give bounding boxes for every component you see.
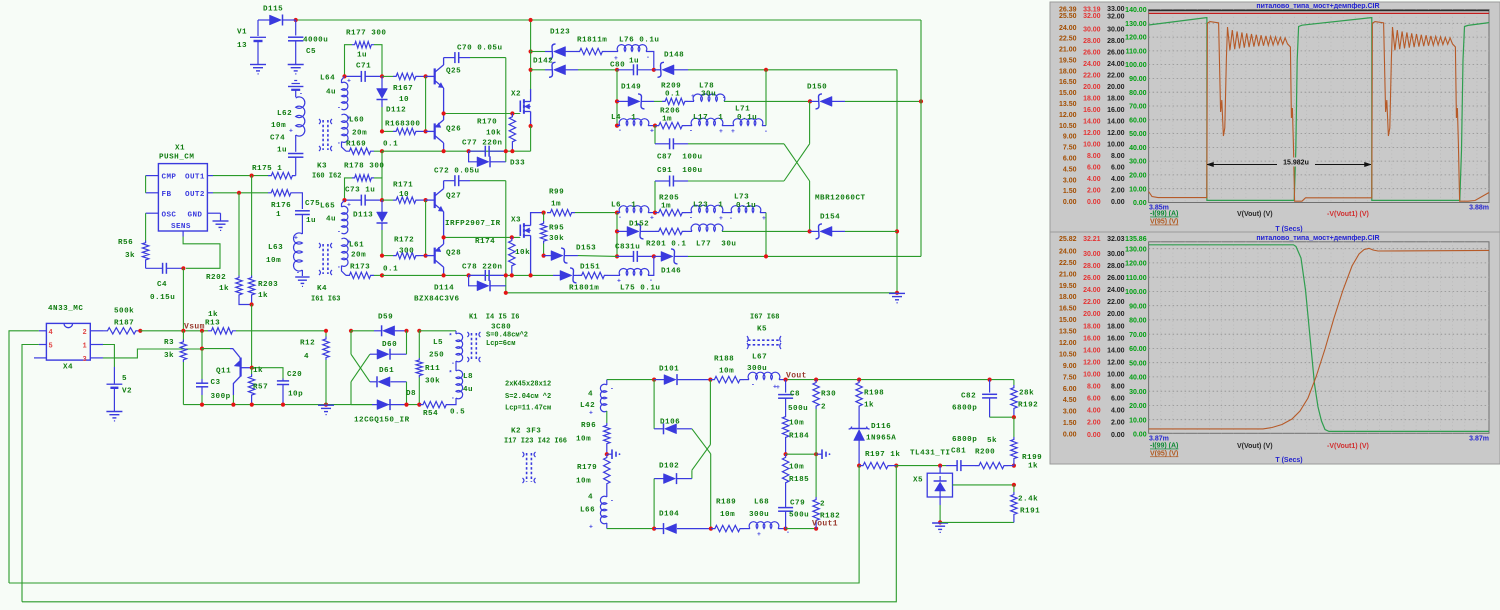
svg-text:2.00: 2.00 — [1087, 188, 1101, 195]
wire gate line upper — [444, 113, 521, 115]
node R202/R203 — [250, 302, 254, 306]
svg-text:100.00: 100.00 — [1125, 289, 1147, 296]
node X2 D142 — [529, 68, 533, 72]
svg-text:18.00: 18.00 — [1107, 96, 1125, 103]
node Q28 collector — [442, 273, 446, 277]
svg-text:26.00: 26.00 — [1083, 275, 1101, 282]
wire CMP-FB loop — [146, 175, 159, 177]
svg-text:13: 13 — [237, 42, 247, 50]
transformer core K2 — [526, 453, 528, 482]
svg-text:18.00: 18.00 — [1107, 323, 1125, 330]
resistor R200 — [972, 465, 975, 467]
svg-text:R171: R171 — [393, 182, 413, 190]
svg-text:110.00: 110.00 — [1126, 275, 1147, 282]
resistor R174 — [509, 237, 515, 269]
node C3 bus — [200, 403, 204, 407]
svg-text:L71: L71 — [735, 106, 750, 114]
svg-text:D123: D123 — [550, 29, 570, 37]
svg-text:30.00: 30.00 — [1083, 27, 1101, 34]
resistor R99 — [547, 209, 575, 215]
capacitor C78 — [469, 274, 486, 276]
node R182 bottom — [814, 527, 818, 531]
wire gate line lower — [444, 236, 521, 238]
capacitor C70 — [444, 57, 455, 59]
svg-text:L64: L64 — [320, 75, 335, 83]
capacitor C81 — [946, 465, 957, 467]
svg-text:10m: 10m — [576, 478, 591, 486]
node Q11 base feed — [200, 347, 204, 351]
svg-text:OSC: OSC — [162, 211, 177, 219]
inductor L4 — [617, 125, 620, 127]
svg-text:Vout: Vout — [786, 372, 807, 381]
svg-text:D33: D33 — [510, 160, 525, 168]
svg-text:R30: R30 — [821, 391, 836, 399]
node C71 left — [342, 74, 346, 78]
wire x766 upper — [765, 70, 767, 126]
svg-text:15.00: 15.00 — [1059, 317, 1077, 324]
panel1 green trace — [1149, 18, 1489, 201]
svg-text:R1811m: R1811m — [577, 37, 607, 45]
svg-text:D113: D113 — [353, 212, 373, 220]
svg-text:16.50: 16.50 — [1059, 79, 1077, 86]
svg-text:L23 1: L23 1 — [693, 202, 723, 210]
svg-text:-: - — [618, 214, 622, 221]
node R96/R179 — [605, 452, 609, 456]
node R171 right — [424, 198, 428, 202]
svg-text:4.00: 4.00 — [1087, 408, 1101, 415]
transformer core K4 — [322, 244, 324, 274]
svg-text:R200: R200 — [975, 449, 995, 457]
svg-text:L78: L78 — [699, 83, 714, 91]
svg-text:10p: 10p — [288, 391, 303, 399]
svg-text:10.50: 10.50 — [1059, 352, 1077, 359]
svg-text:2: 2 — [820, 501, 825, 509]
wire feedback B — [22, 466, 896, 602]
inductor L67 — [744, 379, 749, 381]
svg-text:+: + — [731, 128, 735, 135]
svg-text:-: - — [751, 382, 755, 389]
inductor L65 — [342, 200, 345, 207]
node Vsum/R12 — [324, 329, 328, 333]
svg-text:1N965A: 1N965A — [866, 435, 896, 443]
svg-text:+: + — [289, 128, 293, 135]
zener D148 — [654, 69, 661, 71]
transformer core K1 — [471, 333, 473, 361]
diode D112 — [381, 76, 383, 88]
svg-text:8.00: 8.00 — [1087, 153, 1101, 160]
svg-text:D104: D104 — [659, 511, 679, 519]
zener D153 — [544, 255, 551, 257]
svg-text:4000u: 4000u — [303, 37, 328, 45]
svg-text:2.4k: 2.4k — [1018, 496, 1038, 504]
svg-text:+: + — [617, 278, 621, 285]
inductor L6 — [617, 212, 620, 214]
svg-text:0.00: 0.00 — [1087, 199, 1101, 206]
svg-text:10m: 10m — [789, 420, 804, 428]
svg-text:30.00: 30.00 — [1107, 27, 1125, 34]
svg-text:Q28: Q28 — [446, 250, 461, 258]
svg-text:4.00: 4.00 — [1087, 176, 1101, 183]
resistor R180 — [578, 272, 608, 278]
ground X1 GND pin — [207, 212, 220, 214]
node ground right — [895, 291, 899, 295]
svg-text:D61: D61 — [379, 367, 394, 375]
svg-text:4u: 4u — [326, 89, 336, 97]
svg-text:D153: D153 — [576, 245, 596, 253]
svg-text:4u: 4u — [463, 386, 473, 394]
svg-text:9.00: 9.00 — [1063, 134, 1077, 141]
capacitor C8 — [785, 380, 787, 393]
svg-text:20m: 20m — [352, 130, 367, 138]
inductor L61 — [342, 238, 349, 266]
svg-text:32.00: 32.00 — [1107, 13, 1125, 20]
svg-text:R178 300: R178 300 — [344, 163, 384, 171]
svg-text:D150: D150 — [807, 84, 827, 92]
svg-text:28.00: 28.00 — [1107, 38, 1125, 45]
svg-text:15.00: 15.00 — [1059, 90, 1077, 97]
wire C72 right drop — [505, 181, 507, 293]
svg-text:4.00: 4.00 — [1111, 176, 1125, 183]
ground V2 — [106, 411, 122, 413]
svg-text:0.00: 0.00 — [1133, 200, 1147, 207]
node X3 drain/R99 — [542, 211, 546, 215]
svg-text:L75 0.1u: L75 0.1u — [620, 285, 660, 293]
svg-text:20.00: 20.00 — [1129, 173, 1147, 180]
resistor R209 — [662, 98, 688, 104]
svg-text:21.00: 21.00 — [1059, 271, 1077, 278]
svg-text:4.50: 4.50 — [1063, 397, 1077, 404]
svg-text:90.00: 90.00 — [1129, 303, 1147, 310]
svg-text:+: + — [650, 128, 654, 135]
svg-text:D59: D59 — [378, 314, 393, 322]
wire pin1 to V2 — [90, 344, 103, 346]
svg-text:20.00: 20.00 — [1129, 403, 1147, 410]
wire bridge bottom line — [607, 528, 656, 530]
resistor R54 — [419, 401, 450, 407]
svg-text:K3: K3 — [317, 163, 327, 171]
node Vsum/R13 — [200, 329, 204, 333]
svg-text:12.00: 12.00 — [1059, 340, 1077, 347]
svg-text:300u: 300u — [747, 365, 767, 373]
wire right top corner — [896, 70, 898, 293]
svg-text:-: - — [764, 128, 768, 135]
svg-text:4.00: 4.00 — [1111, 408, 1125, 415]
diode D113 — [381, 200, 383, 212]
svg-text:500k: 500k — [114, 308, 134, 316]
transistor Q28 — [426, 255, 435, 257]
svg-text:19.50: 19.50 — [1059, 283, 1077, 290]
svg-text:10.00: 10.00 — [1107, 372, 1125, 379]
svg-text:22.00: 22.00 — [1083, 73, 1101, 80]
svg-text:C87 100u: C87 100u — [657, 154, 703, 162]
capacitor C75 — [295, 210, 310, 212]
wire cross to lower — [784, 144, 810, 181]
svg-text:1: 1 — [83, 343, 87, 351]
svg-text:R177 300: R177 300 — [346, 30, 386, 38]
svg-text:D112: D112 — [386, 107, 406, 115]
capacitor C20 — [282, 379, 284, 381]
svg-text:0.00: 0.00 — [1063, 432, 1077, 439]
diode D102 — [654, 478, 663, 480]
svg-text:10.50: 10.50 — [1059, 123, 1077, 130]
svg-text:1k: 1k — [258, 292, 268, 300]
svg-text:14.00: 14.00 — [1083, 119, 1101, 126]
node X3 source — [529, 273, 533, 277]
svg-text:C831u: C831u — [615, 244, 640, 252]
svg-text:Q11: Q11 — [216, 368, 231, 376]
svg-text:10m: 10m — [720, 511, 735, 519]
svg-text:D102: D102 — [659, 463, 679, 471]
wire feedback A — [9, 466, 859, 583]
zener D149 — [617, 100, 628, 102]
node C71 right — [380, 74, 384, 78]
svg-text:0.00: 0.00 — [1063, 199, 1077, 206]
svg-text:+: + — [691, 93, 695, 100]
svg-text:0.00: 0.00 — [1111, 432, 1125, 439]
svg-text:110.00: 110.00 — [1126, 49, 1147, 56]
svg-text:V1: V1 — [237, 29, 247, 37]
node C73 right — [380, 198, 384, 202]
node C83 right — [652, 254, 656, 258]
svg-text:L76 0.1u: L76 0.1u — [619, 37, 659, 45]
node R174 bottom — [510, 273, 514, 277]
svg-text:24.00: 24.00 — [1083, 287, 1101, 294]
svg-text:-: - — [649, 277, 653, 284]
svg-text:L65: L65 — [320, 203, 335, 211]
svg-text:D142: D142 — [533, 58, 553, 66]
svg-text:C73 1u: C73 1u — [345, 187, 375, 195]
node OUT1/R203 — [250, 174, 254, 178]
inductor L68 — [744, 528, 750, 530]
node D154 left — [808, 229, 812, 233]
wire diag cross upper — [350, 331, 352, 354]
node L4 line left — [615, 124, 619, 128]
svg-text:10.00: 10.00 — [1107, 142, 1125, 149]
resistor R172 — [382, 255, 393, 257]
inductor L42 — [606, 380, 608, 385]
svg-text:T (Secs): T (Secs) — [1275, 457, 1302, 464]
svg-text:18.00: 18.00 — [1083, 323, 1101, 330]
svg-text:R3: R3 — [164, 339, 174, 347]
svg-text:12.00: 12.00 — [1059, 112, 1077, 119]
resistor R95 — [543, 213, 545, 221]
wire K3 loop to K4 loop — [381, 151, 383, 178]
capacitor C71 — [345, 75, 362, 77]
svg-text:R175 1: R175 1 — [252, 165, 282, 173]
svg-text:12.00: 12.00 — [1083, 360, 1101, 367]
ic marker 2 — [817, 453, 822, 455]
svg-text:500u: 500u — [789, 512, 809, 520]
svg-text:6800p: 6800p — [952, 436, 977, 444]
svg-text:BZX84C3V6: BZX84C3V6 — [414, 296, 460, 304]
wire mid tap — [786, 453, 817, 455]
svg-text:30.00: 30.00 — [1129, 389, 1147, 396]
svg-text:30k: 30k — [425, 378, 440, 386]
node C73 left — [342, 198, 346, 202]
resistor R167 — [382, 75, 393, 77]
resistor R203 — [248, 276, 254, 298]
node mid tap right — [814, 452, 818, 456]
resistor R206 — [655, 122, 686, 128]
svg-text:I67 I68: I67 I68 — [750, 314, 779, 322]
inductor L63 — [294, 233, 303, 271]
diode D33 — [469, 151, 477, 162]
svg-text:D148: D148 — [664, 52, 684, 60]
node Q25 emitter — [442, 111, 446, 115]
svg-text:1k: 1k — [219, 285, 229, 293]
svg-text:C82: C82 — [961, 393, 976, 401]
wire X5 ref — [953, 484, 1014, 486]
svg-text:V(95) (V): V(95) (V) — [1150, 219, 1178, 226]
wire diag cross lower — [351, 354, 370, 382]
svg-text:70.00: 70.00 — [1129, 104, 1147, 111]
svg-text:10m: 10m — [271, 122, 286, 130]
svg-text:3k: 3k — [125, 252, 135, 260]
svg-text:R202: R202 — [206, 274, 226, 282]
svg-text:135.86: 135.86 — [1125, 236, 1147, 243]
wire bridge left upper — [653, 380, 655, 429]
svg-text:30.00: 30.00 — [1107, 251, 1125, 258]
resistor R197 — [859, 462, 892, 468]
svg-text:0.15u: 0.15u — [150, 294, 175, 302]
svg-text:TL431_TI: TL431_TI — [910, 450, 950, 458]
svg-text:Q25: Q25 — [446, 68, 461, 76]
svg-text:C4: C4 — [157, 281, 167, 289]
resistor R185 — [782, 454, 788, 486]
svg-text:R192: R192 — [1018, 402, 1038, 410]
stub pin left 3 — [34, 357, 46, 359]
svg-text:C75: C75 — [305, 200, 320, 208]
svg-text:-: - — [451, 360, 455, 367]
svg-text:D149: D149 — [621, 84, 641, 92]
svg-text:D116: D116 — [871, 423, 891, 431]
svg-text:26.00: 26.00 — [1107, 275, 1125, 282]
transistor Q11 — [202, 348, 230, 350]
svg-text:D151: D151 — [580, 264, 600, 272]
inductor L73 — [722, 212, 732, 214]
svg-text:C78 220n: C78 220n — [462, 264, 502, 272]
capacitor C80 — [617, 69, 634, 71]
svg-text:25.82: 25.82 — [1059, 236, 1077, 243]
resistor R30 — [813, 380, 819, 409]
svg-text:16.00: 16.00 — [1083, 107, 1101, 114]
svg-text:80.00: 80.00 — [1129, 90, 1147, 97]
node bridge bottom right — [709, 527, 713, 531]
resistor R198 — [856, 380, 862, 409]
svg-text:': ' — [451, 397, 455, 404]
svg-text:L4 1: L4 1 — [611, 114, 636, 122]
svg-text:R168300: R168300 — [385, 121, 420, 129]
MOSFET X3 — [519, 225, 521, 237]
svg-text:15.982u: 15.982u — [1283, 159, 1309, 166]
svg-text:9.00: 9.00 — [1063, 363, 1077, 370]
svg-text:8.00: 8.00 — [1087, 384, 1101, 391]
svg-text:-: - — [610, 498, 614, 505]
panel1 red trace -V(Vout1) — [1149, 12, 1489, 14]
svg-text:3k: 3k — [164, 352, 174, 360]
resistor R11 — [418, 331, 420, 358]
svg-text:K1 I4 I5 I6: K1 I4 I5 I6 — [469, 314, 519, 322]
zener D154 — [810, 230, 819, 232]
svg-text:S=2.04см ^2: S=2.04см ^2 — [505, 392, 551, 401]
node Vout — [784, 378, 788, 382]
node D154 right — [895, 229, 899, 233]
svg-text:1k: 1k — [1028, 463, 1038, 471]
wire bridge right upper — [709, 380, 711, 445]
wire X2 column top — [530, 20, 532, 70]
wire R203 node down — [251, 305, 253, 368]
wire Vsum to C3 — [201, 331, 203, 349]
wire pin5 feedback — [39, 344, 47, 346]
svg-text:X4: X4 — [63, 364, 73, 372]
panel1 black trace V(Vout) — [1149, 10, 1489, 12]
svg-text:7.50: 7.50 — [1063, 374, 1077, 381]
svg-text:1: 1 — [276, 211, 281, 219]
svg-text:R209: R209 — [661, 83, 681, 91]
svg-text:+: + — [347, 239, 351, 246]
svg-text:33.00: 33.00 — [1107, 6, 1125, 13]
svg-text:2.00: 2.00 — [1087, 420, 1101, 427]
svg-text:+: + — [294, 235, 298, 242]
svg-text:60.00: 60.00 — [1129, 117, 1147, 124]
svg-text:R174: R174 — [475, 238, 495, 246]
svg-text:L67: L67 — [752, 354, 767, 362]
svg-text:+: + — [762, 215, 766, 222]
svg-text:K4: K4 — [317, 285, 327, 293]
node C79 bottom — [784, 527, 788, 531]
svg-text:16.00: 16.00 — [1107, 107, 1125, 114]
optocoupler X4 4N33_MC box — [46, 323, 90, 360]
diode D59 — [351, 330, 374, 332]
svg-text:5: 5 — [49, 343, 53, 351]
panel2 green trace — [1149, 245, 1489, 432]
node X2 top D123 — [529, 49, 533, 53]
zener D123 — [531, 51, 545, 53]
transistor Q26 — [426, 130, 435, 132]
node Q11 bus — [231, 403, 235, 407]
node R11 bus — [417, 403, 421, 407]
svg-text:X5: X5 — [913, 477, 923, 485]
svg-text:OUT1: OUT1 — [185, 174, 205, 182]
svg-text:R199: R199 — [1022, 454, 1042, 462]
svg-text:0.00: 0.00 — [1087, 432, 1101, 439]
panel1 orange trace — [1149, 22, 1489, 202]
node R168 right — [424, 129, 428, 133]
svg-text:20.00: 20.00 — [1083, 311, 1101, 318]
svg-text:Lcp=11.47см: Lcp=11.47см — [505, 405, 551, 413]
svg-text:4: 4 — [588, 494, 593, 502]
svg-text:V2: V2 — [122, 388, 132, 396]
svg-text:22.50: 22.50 — [1059, 36, 1077, 43]
wire X2 drain — [530, 70, 532, 89]
svg-text:1u: 1u — [629, 58, 639, 66]
node R170 bottom — [510, 149, 514, 153]
node R168 left — [380, 129, 384, 133]
svg-text:C8: C8 — [790, 391, 800, 399]
svg-text:R197 1k: R197 1k — [865, 451, 900, 459]
node R184/R185 — [784, 452, 788, 456]
svg-text:50.00: 50.00 — [1129, 360, 1147, 367]
node bridge bottom left — [652, 527, 656, 531]
svg-text:R172: R172 — [394, 237, 414, 245]
svg-text:4u: 4u — [326, 216, 336, 224]
svg-text:L61: L61 — [349, 242, 364, 250]
node R192/R199 — [1012, 415, 1016, 419]
svg-text:10.00: 10.00 — [1129, 186, 1147, 193]
svg-text:Lcp=6см: Lcp=6см — [486, 340, 515, 348]
svg-text:13.50: 13.50 — [1059, 329, 1077, 336]
svg-text:24.00: 24.00 — [1059, 248, 1077, 255]
